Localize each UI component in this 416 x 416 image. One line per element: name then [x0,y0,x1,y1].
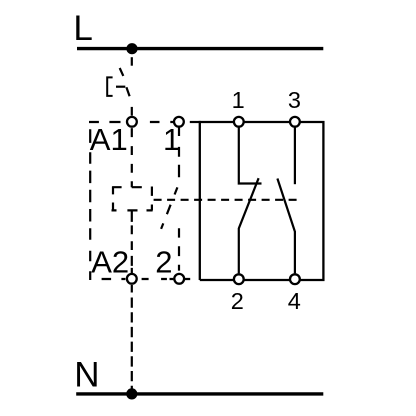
svg-text:2: 2 [231,288,244,314]
contact 1-2 lever inside relay (dashed) [161,187,177,229]
contact 1-2: moving lever [239,178,259,273]
pushbutton S1 actuator link (dash) [116,86,125,88]
svg-text:1: 1 [163,122,180,157]
wire: relay terminal 1 to contact block [190,121,201,123]
wire: A1 to coil (dashed) [131,128,133,187]
svg-text:2: 2 [155,245,172,280]
svg-text:4: 4 [288,288,301,314]
svg-text:1: 1 [232,87,245,113]
pushbutton S1 lever (dashed) [120,68,130,96]
N bus wire [76,392,323,395]
node: N junction dot [126,388,137,399]
svg-text:A2: A2 [91,245,129,280]
wire: pushbutton to terminal A1 (dashed) [131,107,133,116]
relay K1 dashed outline: top edge [89,121,173,123]
pushbutton S1 actuator bracket [107,77,112,96]
svg-text:A1: A1 [90,122,128,157]
L bus wire [77,47,323,50]
terminal 3 (block) [290,117,300,127]
terminal 1 (relay) [174,117,184,127]
contact block box [200,122,324,280]
relay K1 dashed outline: bottom edge [102,278,191,280]
terminal 1 (block) [234,117,244,127]
terminal 2 (relay) [174,274,184,284]
mechanical link coil to contacts (dashed) [154,199,297,201]
terminal 2 (block) [234,274,244,284]
contact 3-4: moving lever [277,179,295,274]
wire: contact to terminal 2 (dashed) [178,228,180,270]
wire: terminal 1 down to contact (dashed) [178,127,180,178]
terminal 4 (block) [290,274,300,284]
contact 1-2: fixed wire from terminal 1 [239,127,262,183]
terminal A2 [127,274,137,284]
svg-text:L: L [73,9,92,48]
wire: L junction to pushbutton (dashed) [131,57,133,65]
terminal A1 [127,117,137,127]
wire: coil to A2 (dashed, with stem) [131,210,133,273]
node: L junction dot [126,43,137,54]
svg-text:3: 3 [288,87,301,113]
contact 3-4: fixed wire from terminal 3 [294,127,296,184]
coil K1 (dashed rectangle) [112,187,153,211]
relay K1 dashed outline: left edge [89,129,91,280]
wire: A2 to N junction (dashed) [131,285,133,390]
svg-text:N: N [74,355,99,394]
